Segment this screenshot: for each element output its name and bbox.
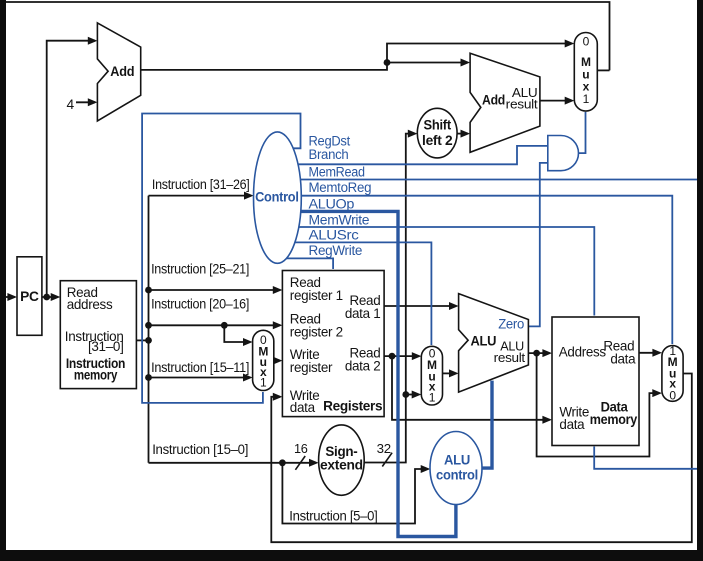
node: PC+4 branch junction — [384, 59, 391, 66]
wire: top mux output — [597, 69, 609, 71]
svg-text:memory: memory — [590, 412, 638, 427]
svg-text:control: control — [436, 468, 478, 483]
wire: Instruction [15-0] to sign extend — [149, 462, 317, 464]
svg-text:register 2: register 2 — [290, 324, 343, 339]
svg-text:extend: extend — [320, 458, 363, 473]
adder Add ALU result (branch target) — [470, 53, 540, 152]
svg-text:0: 0 — [669, 388, 676, 402]
svg-text:1: 1 — [260, 376, 267, 390]
wire: ALUSrc mux output to ALU — [443, 372, 457, 374]
ALU main — [459, 294, 529, 393]
wire: MemWrite control signal to data memory — [297, 227, 595, 316]
svg-text:1: 1 — [429, 390, 436, 404]
wire: Instruction [31-26] to Control — [149, 195, 252, 197]
svg-text:Zero: Zero — [498, 317, 524, 332]
wire: read data 2 to ALUSrc mux input 0 — [384, 355, 419, 357]
svg-text:Instruction [15–0]: Instruction [15–0] — [152, 442, 248, 457]
wire: branch adder output to top mux input 1 — [540, 100, 572, 102]
svg-text:result: result — [506, 96, 538, 111]
wire: read data 1 to ALU — [384, 305, 456, 307]
oval sign extend — [319, 425, 365, 495]
oval shift left 2 — [417, 108, 457, 158]
svg-text:Branch: Branch — [309, 147, 349, 162]
wire: data memory read data to right mux input 1 — [639, 352, 660, 354]
svg-text:RegWrite: RegWrite — [309, 243, 363, 258]
wire: constant 4 into Add — [76, 101, 95, 103]
svg-text:ALU: ALU — [444, 453, 470, 468]
wire: instruction memory output bus — [136, 339, 148, 341]
wire: RegDst control signal — [142, 114, 300, 403]
svg-text:1: 1 — [583, 92, 590, 106]
adder Add (PC+4) — [97, 23, 140, 121]
mux RegDst (write register) — [253, 330, 274, 390]
svg-text:Add: Add — [110, 64, 134, 80]
svg-text:data: data — [290, 400, 316, 415]
svg-text:ALUSrc: ALUSrc — [309, 228, 360, 243]
svg-text:ALU: ALU — [471, 334, 497, 350]
wire: PC+4 to branch adder — [387, 62, 468, 64]
svg-text:memory: memory — [74, 368, 118, 383]
svg-text:Add: Add — [482, 93, 505, 109]
svg-text:Control: Control — [255, 188, 299, 204]
wire: read data 2 branch to data memory write data — [392, 356, 550, 420]
wire: into PC — [5, 296, 15, 298]
svg-text:[31–0]: [31–0] — [88, 339, 124, 354]
svg-text:Instruction [15–11]: Instruction [15–11] — [151, 360, 249, 375]
wire: RegDst mux output to write register — [274, 360, 280, 362]
node: PC output junction — [43, 294, 50, 301]
svg-text:ALUOp: ALUOp — [309, 197, 355, 212]
svg-text:16: 16 — [294, 441, 308, 456]
svg-text:address: address — [67, 297, 113, 312]
wire: RegWrite control signal to registers — [285, 258, 334, 269]
wire: ALU control output (thick) to ALU — [481, 381, 492, 469]
wire: Instruction [15-11] to RegDst mux input 1 — [149, 377, 251, 379]
svg-text:PC: PC — [20, 289, 39, 304]
mux PCSrc (top right) — [574, 33, 597, 112]
instruction memory — [60, 281, 136, 389]
wire: ALUSrc control signal to ALUSrc mux select — [293, 242, 432, 345]
wire: AND gate output to top mux select — [579, 112, 586, 153]
svg-text:MemRead: MemRead — [309, 165, 365, 180]
wire: ALUOp control signal (thick) to ALU control — [299, 211, 456, 536]
wire: Instruction [5-0] to ALU control — [282, 463, 428, 524]
wire: ALU result to data memory address — [528, 352, 549, 354]
wire: Instruction [20-16] branch to RegDst mux input 0 — [224, 325, 250, 342]
bit-width slash 16 — [295, 456, 305, 470]
svg-text:32: 32 — [377, 441, 391, 456]
svg-text:Instruction [31–26]: Instruction [31–26] — [152, 177, 250, 192]
registers file — [282, 271, 384, 417]
wire: Zero flag from ALU to AND gate — [528, 163, 547, 327]
oval ALU control — [430, 432, 482, 505]
wire: sign extend branch to ALUSrc mux input 1 — [406, 394, 419, 396]
wire: sign extend output up to shift-left-2 and ALUSrc mux — [364, 134, 415, 463]
mux ALUSrc — [421, 346, 442, 405]
control unit oval — [254, 132, 302, 263]
wire: Instruction [20-16] to read register 2 — [149, 324, 281, 326]
data memory — [552, 317, 639, 446]
svg-text:MemWrite: MemWrite — [309, 212, 370, 227]
svg-text:Instruction [20–16]: Instruction [20–16] — [151, 297, 249, 312]
wire: MemtoReg control signal to right mux select — [299, 196, 672, 344]
register PC — [17, 257, 42, 336]
wire: mux-to-PC feedback along top edge — [6, 2, 610, 70]
svg-text:Address: Address — [559, 345, 607, 360]
svg-text:Shift: Shift — [424, 118, 452, 133]
svg-text:Registers: Registers — [323, 399, 382, 414]
svg-text:data: data — [559, 417, 585, 432]
svg-text:register: register — [290, 360, 333, 375]
svg-text:data: data — [610, 352, 636, 367]
svg-text:MemtoReg: MemtoReg — [309, 180, 372, 195]
wire: Branch control signal to AND gate — [296, 146, 548, 164]
wire: MemRead return into data memory bottom — [594, 447, 697, 469]
svg-text:register 1: register 1 — [290, 288, 343, 303]
wire: ALU result bypass to right mux input 0 — [537, 353, 660, 456]
wire: Add (PC+4) output to top mux input 0 — [141, 44, 572, 70]
svg-text:0: 0 — [583, 35, 590, 49]
svg-text:result: result — [494, 350, 526, 365]
svg-text:Instruction [5–0]: Instruction [5–0] — [289, 508, 377, 523]
wire: Instruction [25-21] to read register 1 — [149, 289, 281, 291]
svg-text:Instruction [25–21]: Instruction [25–21] — [151, 261, 249, 276]
wire: PC to instruction memory read address — [42, 296, 58, 298]
bit-width slash 32 — [382, 453, 392, 467]
svg-text:data 2: data 2 — [345, 359, 381, 374]
wire: MemRead control signal — [298, 179, 697, 181]
AND gate (branch) — [548, 136, 579, 171]
svg-text:left 2: left 2 — [422, 133, 452, 148]
svg-text:4: 4 — [67, 97, 75, 112]
mux MemtoReg (right) — [662, 346, 683, 402]
svg-text:data 1: data 1 — [345, 306, 381, 321]
wire: PC up to Add input — [47, 41, 95, 297]
wire: shift-left-2 output to branch adder — [457, 133, 468, 135]
wire: write-back from right mux to registers write data — [271, 374, 692, 543]
